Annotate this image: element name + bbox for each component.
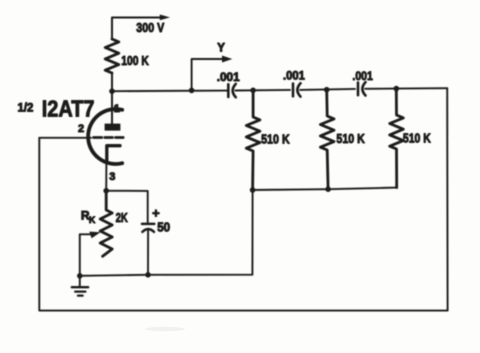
node C (after C3) bbox=[394, 86, 400, 92]
wire: ground junction to cap junction bbox=[80, 275, 148, 276]
node B (after C2) bbox=[324, 87, 330, 93]
paper smudge bbox=[145, 327, 185, 331]
resistor R3 510K bbox=[390, 89, 404, 188]
svg-text:I2AT7: I2AT7 bbox=[42, 96, 95, 122]
svg-text:.001: .001 bbox=[283, 69, 305, 83]
node cathode junction bbox=[103, 188, 109, 194]
arrow head Y output bbox=[222, 56, 232, 63]
tube cathode bbox=[107, 146, 120, 163]
capacitor C4 bottom curved plate bbox=[142, 229, 154, 232]
svg-text:2K: 2K bbox=[116, 210, 129, 225]
tube grid dashed line bbox=[94, 136, 124, 139]
svg-text:300 V: 300 V bbox=[136, 20, 164, 35]
resistor R (plate) 100K zigzag bbox=[105, 39, 119, 73]
wire: resistor bottom to plate node bbox=[111, 73, 113, 91]
arrow head 300V supply bbox=[160, 15, 170, 21]
resistor RK 2K zigzag bbox=[100, 191, 112, 256]
svg-text:.001: .001 bbox=[352, 69, 373, 83]
node plate junction bbox=[109, 88, 115, 94]
wire: cap1 to node A bbox=[236, 89, 291, 92]
svg-text:510 K: 510 K bbox=[261, 132, 290, 147]
svg-text:50: 50 bbox=[157, 219, 170, 234]
resistor R2 510K bbox=[320, 90, 334, 190]
wire: cathode junction to bypass cap bbox=[106, 191, 148, 223]
wire: plate node to tube plate bbox=[111, 91, 113, 124]
svg-text:510 K: 510 K bbox=[403, 130, 431, 145]
resistor R1 510K bbox=[246, 90, 260, 190]
wire: B+ feed vertical and horizontal to arrow bbox=[112, 18, 162, 40]
svg-text:510 K: 510 K bbox=[336, 131, 365, 146]
wire: Y output riser bbox=[192, 59, 224, 90]
wire: wiper down to ground junction bbox=[79, 234, 81, 275]
capacitor C3 .001 bbox=[357, 83, 360, 96]
capacitor C2 .001 bbox=[292, 84, 295, 97]
wire: top rail plate node to first cap bbox=[112, 90, 228, 93]
tube plate bar bbox=[105, 124, 121, 131]
node rail left bbox=[250, 187, 256, 193]
node cap-ground junction bbox=[145, 272, 151, 278]
svg-text:2: 2 bbox=[78, 123, 84, 135]
svg-text:.001: .001 bbox=[217, 70, 240, 84]
svg-text:3: 3 bbox=[109, 171, 115, 183]
wire: cap2 to node B bbox=[300, 89, 355, 90]
svg-text:1/2: 1/2 bbox=[18, 103, 34, 115]
node A (after C1) bbox=[250, 88, 256, 94]
ground symbol bbox=[79, 276, 81, 287]
node ground junction bbox=[77, 273, 83, 279]
svg-text:K: K bbox=[89, 215, 96, 225]
wire: grid to left feedback wire bbox=[39, 137, 91, 139]
svg-text:Y: Y bbox=[217, 43, 225, 55]
wire: bottom rail of 510K resistors bbox=[253, 188, 397, 190]
capacitor C4 top plate bbox=[142, 223, 154, 226]
wire: cap3 to node C and right corner bbox=[365, 87, 447, 90]
capacitor C1 .001 bbox=[227, 84, 230, 97]
wire: rail drop to cathode ground wire bbox=[148, 190, 253, 275]
node Y tap bbox=[189, 88, 195, 94]
tube U1 envelope arc (1/2 12AT7) bbox=[88, 109, 122, 164]
svg-text:100 K: 100 K bbox=[121, 53, 149, 68]
wire: cathode lead down bbox=[105, 163, 107, 191]
wire: cap bottom to ground rail bbox=[147, 230, 149, 275]
wire: feedback loop left/bottom/right bbox=[39, 88, 447, 310]
wiper arrow of RK bbox=[80, 233, 92, 235]
node rail middle bbox=[325, 186, 331, 192]
